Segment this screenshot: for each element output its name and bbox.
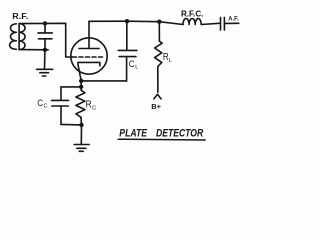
ground lead left [44, 50, 46, 69]
tube V1 envelope [71, 38, 107, 74]
capacitor CC top plate [52, 99, 69, 101]
resistor RC bottom lead [80, 117, 83, 125]
capacitor output left plate [220, 17, 222, 30]
svg-text:L: L [135, 65, 138, 71]
wire RFC to output cap [201, 23, 219, 24]
capacitor C1 bottom plate [39, 38, 53, 40]
svg-text:C: C [92, 106, 96, 112]
svg-text:C: C [129, 59, 135, 70]
title underline [118, 138, 205, 141]
capacitor CL bottom lead [126, 57, 128, 81]
tube V1 cathode [78, 62, 100, 81]
node junction dot CL top [125, 19, 129, 23]
ground symbol left [37, 69, 53, 76]
wire cathode down [80, 81, 82, 90]
svg-text:R.F.: R.F. [12, 12, 28, 21]
capacitor C1 bottom lead [44, 39, 46, 50]
wire CC bottom to RC bottom [61, 123, 82, 126]
resistor RL bottom lead [157, 67, 159, 93]
wire cathode to CC top [61, 86, 81, 88]
tube V1 plate lead [88, 21, 90, 48]
ground symbol bottom [74, 145, 89, 152]
wire plate top [89, 21, 183, 24]
transformer T1 primary coil [10, 24, 17, 49]
capacitor C1 tuning top lead [44, 23, 46, 33]
node junction dot RL top [157, 20, 161, 24]
capacitor CL top plate [118, 49, 137, 51]
svg-text:A.F.: A.F. [228, 15, 239, 22]
node junction dot bottom of tuning cap [43, 48, 47, 52]
capacitor C1 top plate [38, 32, 52, 34]
resistor RL top lead [158, 22, 160, 42]
inductor RFC coil [183, 18, 201, 24]
node junction dot cathode to CL [79, 79, 83, 83]
tube V1 grid dashes [73, 56, 104, 58]
transformer T1 secondary coil [19, 24, 25, 50]
svg-text:C: C [37, 98, 43, 109]
tube V1 plate bar [79, 48, 99, 50]
resistor RL zigzag [155, 41, 163, 66]
svg-text:C: C [44, 103, 48, 109]
node junction dot cathode to CC [79, 85, 83, 89]
ground lead bottom [80, 125, 82, 144]
node junction dot top of tuning cap [43, 21, 47, 25]
capacitor CC top lead [60, 87, 62, 100]
svg-text:PLATE: PLATE [119, 127, 147, 139]
B+ arrow head [154, 94, 161, 99]
svg-text:B+: B+ [151, 102, 161, 111]
wire cathode to CL bottom [81, 80, 126, 82]
svg-text:R: R [86, 99, 92, 110]
capacitor CC bottom plate [52, 105, 69, 107]
capacitor CC bottom lead [60, 106, 62, 124]
svg-text:DETECTOR: DETECTOR [156, 127, 203, 139]
wire secondary top to grid corner [19, 23, 72, 57]
node junction dot RC bottom [79, 123, 83, 127]
wire secondary bottom [19, 49, 48, 51]
capacitor output right plate [223, 17, 225, 30]
svg-text:R.F.C.: R.F.C. [181, 9, 203, 18]
resistor RC zigzag [76, 90, 85, 117]
capacitor CL bottom plate [119, 56, 136, 58]
capacitor CL top lead [126, 21, 128, 50]
svg-text:L: L [169, 58, 172, 64]
wire output [225, 22, 239, 24]
